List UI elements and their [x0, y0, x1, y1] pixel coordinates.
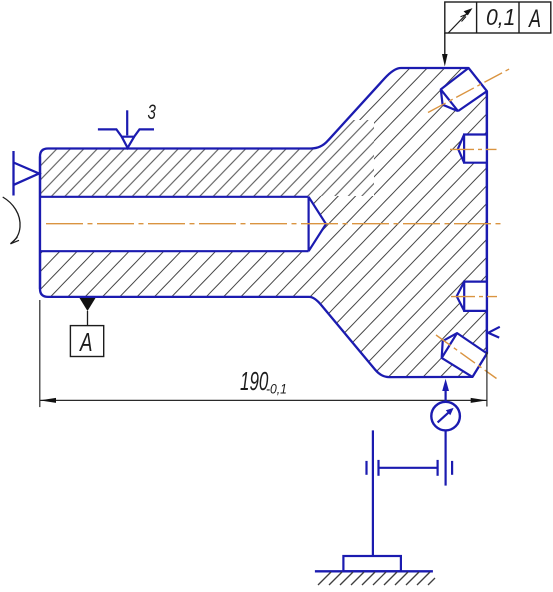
left driver symbol: [14, 151, 40, 196]
runout symbol: [448, 10, 470, 33]
tolerance subscript -0,1: [266, 381, 287, 397]
part outline: [40, 68, 487, 377]
svg-text:A: A: [527, 4, 541, 33]
svg-text:3: 3: [148, 99, 156, 123]
dial indicator: [431, 402, 460, 431]
stand base: [343, 556, 401, 571]
label 3: [148, 99, 156, 123]
svg-text:190: 190: [240, 366, 269, 396]
indicator stem: [445, 430, 447, 485]
dimension value 190: [240, 366, 269, 396]
measuring arrow to flange bottom: [442, 379, 449, 402]
axis of top angled hole: [428, 68, 512, 113]
clamp symbol on top surface: [98, 110, 154, 148]
part body (hatched section): [40, 68, 487, 377]
ground hatching: [318, 572, 435, 585]
right extension line: [486, 352, 488, 407]
ground line: [315, 570, 433, 572]
top angled hole: [441, 68, 487, 111]
left face line: [39, 157, 41, 289]
main centerline: [46, 223, 503, 225]
stand column: [372, 430, 374, 556]
dimension line 190: [40, 398, 487, 403]
tolerance value: [486, 4, 515, 30]
svg-text:0,1: 0,1: [486, 4, 515, 30]
leader to surface: [444, 33, 446, 58]
axis of lower right-face hole: [451, 296, 497, 298]
center bore (white): [40, 197, 326, 251]
probe arrow at right face: [488, 327, 500, 338]
upper right-face hole: [458, 135, 487, 163]
clamp crossbar: [367, 460, 453, 476]
datum A box: [70, 326, 103, 357]
right face line over holes: [486, 91, 488, 353]
svg-text:-0,1: -0,1: [266, 381, 287, 397]
bottom angled hole: [442, 333, 487, 377]
axis of upper right-face hole: [450, 148, 497, 150]
rotation arrow: [3, 197, 20, 244]
lower right-face hole: [457, 282, 487, 311]
dense hatch band (upper shaft wall): [41, 120, 374, 196]
feature control frame: [442, 2, 551, 67]
svg-text:A: A: [78, 327, 92, 357]
datum A triangle: [80, 298, 96, 326]
left extension line: [39, 300, 41, 407]
axis of bottom angled hole: [436, 335, 497, 379]
datum ref: [527, 4, 541, 33]
